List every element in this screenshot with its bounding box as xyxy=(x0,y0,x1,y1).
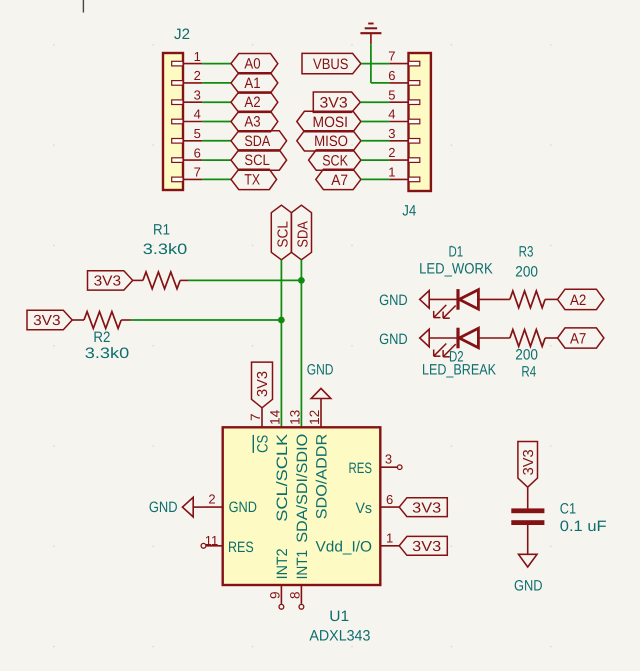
svg-text:SDO/ADDR: SDO/ADDR xyxy=(313,434,330,520)
svg-text:A3: A3 xyxy=(244,114,260,131)
svg-text:3: 3 xyxy=(385,452,392,467)
svg-text:200: 200 xyxy=(515,346,538,363)
power symbol GND (D2 cathode) xyxy=(379,329,429,348)
svg-text:LED_WORK: LED_WORK xyxy=(419,260,493,277)
svg-text:U1: U1 xyxy=(329,608,349,625)
svg-text:MISO: MISO xyxy=(314,133,348,150)
svg-text:6: 6 xyxy=(388,68,395,83)
net label A7 xyxy=(558,328,604,348)
svg-text:GND: GND xyxy=(229,499,258,516)
svg-text:A2: A2 xyxy=(570,292,586,309)
svg-text:11: 11 xyxy=(205,533,219,548)
svg-text:SDA: SDA xyxy=(244,133,270,150)
pin name CS xyxy=(253,435,271,453)
net label A0 xyxy=(231,54,278,74)
svg-text:7: 7 xyxy=(388,49,395,64)
reference R2 xyxy=(93,329,110,346)
wire xyxy=(360,101,389,103)
pin 11 RES (U1) xyxy=(201,533,254,556)
net label TX xyxy=(231,169,277,189)
pin 7 (J2) xyxy=(172,165,203,182)
svg-text:RES: RES xyxy=(228,539,254,556)
svg-text:VBUS: VBUS xyxy=(313,56,349,73)
wire xyxy=(202,178,231,180)
reference R3 xyxy=(519,243,534,260)
svg-text:5: 5 xyxy=(388,87,395,102)
svg-text:1: 1 xyxy=(388,165,395,180)
ground (earth) xyxy=(360,24,381,45)
net label A2 xyxy=(231,92,278,112)
wire xyxy=(202,101,231,103)
reference U1 xyxy=(329,608,349,625)
svg-text:SDA/SDI/SDIO: SDA/SDI/SDIO xyxy=(294,434,311,543)
pin 5 (J2) xyxy=(172,126,203,143)
net label SCL (vertical) xyxy=(271,205,291,260)
svg-text:7: 7 xyxy=(248,414,263,422)
pin 8 INT1 (U1) xyxy=(287,550,310,609)
LED D2 xyxy=(434,328,479,357)
power symbol GND (U1 pin 12) xyxy=(307,361,334,426)
svg-text:3V3: 3V3 xyxy=(255,371,271,397)
wire xyxy=(527,525,529,554)
svg-text:INT2: INT2 xyxy=(274,548,291,579)
reference R1 xyxy=(153,222,170,239)
svg-text:CS: CS xyxy=(254,435,271,453)
svg-text:4: 4 xyxy=(388,107,395,122)
svg-text:3V3: 3V3 xyxy=(412,500,441,516)
pin 6 (J4) xyxy=(388,68,420,85)
junction xyxy=(298,277,305,284)
svg-text:GND: GND xyxy=(379,292,408,309)
reference C1 xyxy=(560,500,576,517)
LED D1 xyxy=(434,289,479,318)
resistor R3 xyxy=(510,291,558,308)
power label 3V3 (R2) xyxy=(27,310,72,329)
svg-text:3V3: 3V3 xyxy=(521,449,537,475)
wire xyxy=(361,63,389,65)
wire xyxy=(361,178,389,180)
wire xyxy=(202,159,231,161)
power symbol GND (D1 cathode) xyxy=(379,291,429,310)
wire xyxy=(361,121,389,123)
wire xyxy=(429,337,458,339)
junction xyxy=(278,317,285,324)
pin 4 (J2) xyxy=(172,107,203,124)
power label 3V3 (U1 pin 7) xyxy=(252,362,273,408)
svg-text:C1: C1 xyxy=(560,500,576,517)
resistor R1 xyxy=(133,272,188,289)
reference D2 xyxy=(449,348,464,365)
net label MOSI xyxy=(297,111,361,131)
power symbol GND (U1 pin 2) xyxy=(149,497,203,517)
value 3.3k0 (R1) xyxy=(143,241,187,258)
reference J2 xyxy=(174,26,190,43)
svg-text:3V3: 3V3 xyxy=(412,539,441,555)
wire xyxy=(361,159,389,161)
svg-text:3V3: 3V3 xyxy=(94,273,122,289)
net label SCK xyxy=(309,150,361,170)
power label 3V3 (C1) xyxy=(518,442,538,488)
power label 3V3 (U1 pin 6) xyxy=(399,498,447,517)
wire xyxy=(478,337,510,339)
wire xyxy=(300,260,302,427)
svg-text:GND: GND xyxy=(379,331,408,348)
pin 3 (J4) xyxy=(388,126,420,143)
pin 3 (J2) xyxy=(172,87,203,104)
svg-text:5: 5 xyxy=(194,126,201,141)
value LED_WORK xyxy=(419,260,493,277)
capacitor C1 xyxy=(511,508,544,525)
svg-text:LED_BREAK: LED_BREAK xyxy=(422,361,496,378)
svg-text:TX: TX xyxy=(244,171,260,188)
svg-text:3.3k0: 3.3k0 xyxy=(143,241,187,258)
resistor R4 xyxy=(510,330,558,347)
svg-text:0.1 uF: 0.1 uF xyxy=(560,518,607,535)
pin 12 (U1) xyxy=(307,410,322,425)
pin 14 (U1) xyxy=(267,409,282,425)
wire xyxy=(527,487,529,508)
pin 2 (J4) xyxy=(388,145,420,162)
svg-text:INT1: INT1 xyxy=(294,550,311,580)
svg-text:R2: R2 xyxy=(93,329,110,346)
value 3.3k0 (R2) xyxy=(85,345,129,362)
svg-text:8: 8 xyxy=(287,591,302,599)
wire xyxy=(202,121,231,123)
wire xyxy=(202,82,231,84)
net label VBUS xyxy=(302,53,361,73)
value 200 (R4) xyxy=(515,346,538,363)
power label 3V3 (U1 pin 1) xyxy=(399,536,447,555)
svg-text:R4: R4 xyxy=(521,363,536,380)
pin 3 RES (U1) xyxy=(349,452,403,477)
svg-text:MOSI: MOSI xyxy=(313,114,349,131)
svg-text:SCK: SCK xyxy=(322,153,348,170)
wire xyxy=(188,279,301,281)
wire xyxy=(280,260,282,427)
resistor R2 xyxy=(72,312,130,329)
svg-text:A7: A7 xyxy=(570,331,586,348)
pin 5 (J4) xyxy=(388,87,420,104)
value 0.1 uF xyxy=(560,518,607,535)
svg-text:D1: D1 xyxy=(448,243,463,260)
pin 6 Vs (U1) xyxy=(356,492,400,517)
net label SDA (vertical) xyxy=(291,205,311,260)
value ADXL343 xyxy=(309,628,370,645)
svg-text:3.3k0: 3.3k0 xyxy=(85,345,129,362)
svg-text:ADXL343: ADXL343 xyxy=(309,628,370,645)
svg-text:SDA: SDA xyxy=(296,221,312,248)
svg-text:GND: GND xyxy=(514,578,543,595)
svg-text:A1: A1 xyxy=(244,75,260,92)
value 200 (R3) xyxy=(515,264,538,281)
svg-text:6: 6 xyxy=(386,492,393,507)
svg-text:3V3: 3V3 xyxy=(33,313,61,329)
net label SCL xyxy=(231,150,287,170)
svg-text:3: 3 xyxy=(388,126,395,141)
svg-text:7: 7 xyxy=(194,165,201,180)
pin 1 (J4) xyxy=(388,165,420,182)
svg-text:GND: GND xyxy=(307,361,334,378)
svg-text:2: 2 xyxy=(388,145,395,160)
value LED_BREAK xyxy=(422,361,496,378)
svg-text:2: 2 xyxy=(194,68,201,83)
pin 4 (J4) xyxy=(388,107,420,124)
net label A3 xyxy=(231,111,278,131)
wire xyxy=(361,140,389,142)
svg-text:J2: J2 xyxy=(174,26,190,43)
power label 3V3 (R1) xyxy=(88,271,133,290)
reference R4 xyxy=(521,363,536,380)
svg-text:2: 2 xyxy=(208,492,215,507)
svg-text:R1: R1 xyxy=(153,222,170,239)
power label 3V3 (J4 pin 5) xyxy=(313,92,360,112)
pin 13 (U1) xyxy=(287,410,302,425)
svg-text:200: 200 xyxy=(515,264,538,281)
svg-text:Vs: Vs xyxy=(356,500,373,517)
pin name SDA/SDI/SDIO xyxy=(294,434,311,543)
pin 9 INT2 (U1) xyxy=(267,548,290,609)
svg-text:3V3: 3V3 xyxy=(320,95,348,112)
svg-text:Vdd_I/O: Vdd_I/O xyxy=(316,538,373,555)
svg-text:3: 3 xyxy=(194,87,201,102)
svg-text:4: 4 xyxy=(194,107,201,122)
svg-text:14: 14 xyxy=(267,409,282,425)
reference J4 xyxy=(402,202,416,219)
pin 6 (J2) xyxy=(172,145,203,162)
svg-text:A7: A7 xyxy=(331,172,348,189)
wire xyxy=(202,140,231,142)
svg-text:6: 6 xyxy=(194,145,201,160)
pin 2 (J2) xyxy=(172,68,203,85)
net label A1 xyxy=(231,73,278,93)
IC U1 body xyxy=(223,427,381,585)
svg-text:A0: A0 xyxy=(244,56,260,73)
wire xyxy=(371,82,389,84)
connector J4 xyxy=(409,53,431,191)
svg-text:J4: J4 xyxy=(402,202,416,219)
pin 2 GND (U1) xyxy=(203,492,257,517)
pin 7 CS (U1) xyxy=(248,408,263,427)
svg-text:13: 13 xyxy=(287,410,302,425)
svg-text:A2: A2 xyxy=(244,94,260,111)
pin 1 (J2) xyxy=(172,49,203,66)
wire xyxy=(429,298,458,300)
pin 7 (J4) xyxy=(388,49,420,66)
wire xyxy=(370,44,372,83)
svg-text:GND: GND xyxy=(149,499,178,516)
svg-text:R3: R3 xyxy=(519,243,534,260)
wire xyxy=(202,63,231,65)
svg-text:9: 9 xyxy=(267,591,282,599)
power symbol GND (C1) xyxy=(514,554,543,594)
pin 1 Vdd_I/O (U1) xyxy=(316,531,400,556)
svg-text:12: 12 xyxy=(307,410,322,425)
net label A2 xyxy=(558,289,604,309)
net label MISO xyxy=(297,131,361,151)
svg-text:SCL: SCL xyxy=(244,152,269,169)
net label A7 xyxy=(316,169,361,189)
pin name SDO/ADDR xyxy=(313,434,330,520)
reference D1 xyxy=(448,243,463,260)
wire xyxy=(478,298,510,300)
svg-text:RES: RES xyxy=(349,460,373,477)
net label SDA xyxy=(231,131,287,151)
svg-text:SCL: SCL xyxy=(276,221,292,248)
pin name SCL/SCLK xyxy=(274,434,291,522)
svg-text:SCL/SCLK: SCL/SCLK xyxy=(274,434,291,522)
wire xyxy=(131,319,282,321)
svg-text:1: 1 xyxy=(386,531,393,546)
connector J2 xyxy=(163,53,183,190)
svg-text:1: 1 xyxy=(194,49,201,64)
